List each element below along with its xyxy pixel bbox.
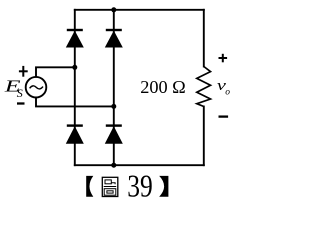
svg-text:200 Ω: 200 Ω	[140, 77, 186, 97]
svg-text:S: S	[17, 86, 23, 100]
svg-text:o: o	[225, 88, 230, 98]
svg-text:39: 39	[127, 169, 153, 204]
